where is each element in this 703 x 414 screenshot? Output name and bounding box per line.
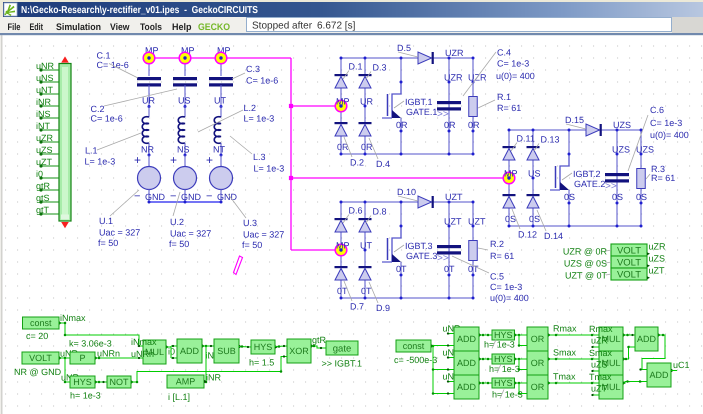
svg-text:f= 50: f= 50 [169,239,189,249]
svg-text:L= 1e-3: L= 1e-3 [254,164,285,174]
svg-text:u(0)= 400: u(0)= 400 [650,130,689,140]
svg-text:D.5: D.5 [397,43,411,53]
svg-text:R= 61: R= 61 [651,173,675,183]
svg-text:OR: OR [531,382,545,392]
svg-text:GATE.1: GATE.1 [406,107,437,117]
svg-text:uNT: uNT [36,85,54,95]
svg-text:XOR: XOR [289,346,309,356]
svg-text:h= 1e-3: h= 1e-3 [70,391,101,401]
svg-text:D.13: D.13 [541,135,560,145]
svg-text:L= 1e-3: L= 1e-3 [85,157,116,167]
svg-text:IGBT.2: IGBT.2 [573,169,601,179]
svg-text:>>: >> [437,253,449,264]
svg-text:const: const [30,318,52,328]
svg-text:NR: NR [141,145,154,155]
svg-text:const: const [403,341,425,351]
svg-text:gate: gate [333,343,352,354]
svg-text:U.3: U.3 [243,218,257,228]
svg-text:SUB: SUB [217,346,236,356]
svg-text:R= 61: R= 61 [497,103,521,113]
svg-text:gtT: gtT [36,205,50,215]
svg-text:U.2: U.2 [170,217,184,227]
svg-text:UZS: UZS [636,145,654,155]
svg-text:L= 1e-3: L= 1e-3 [244,114,275,124]
svg-text:D.7: D.7 [350,302,364,312]
svg-text:UR: UR [360,97,373,107]
svg-text:UT: UT [360,241,372,251]
svg-text:IGBT.3: IGBT.3 [405,241,433,251]
svg-text:NOT: NOT [110,377,130,387]
svg-text:C= 1e-3: C= 1e-3 [497,59,529,69]
svg-text:ADD: ADD [457,358,477,368]
svg-text:iNR: iNR [36,97,51,107]
svg-text:GECKO: GECKO [198,22,230,33]
svg-text:C.4: C.4 [497,48,511,58]
svg-text:HYS: HYS [73,377,92,387]
svg-text:0R: 0R [337,142,349,152]
svg-text:HYS: HYS [494,378,513,388]
svg-text:h= 1e-3: h= 1e-3 [492,390,523,400]
svg-text:L.1: L.1 [85,146,98,156]
svg-text:L.2: L.2 [244,103,257,113]
svg-text:AMP: AMP [176,377,196,387]
svg-text:+: + [134,153,141,167]
svg-text:0S: 0S [529,214,540,224]
svg-text:C= 1e-6: C= 1e-6 [91,114,123,124]
svg-text:iNR: iNR [206,373,221,383]
svg-text:D.15: D.15 [565,115,584,125]
svg-text:Rmax: Rmax [553,324,577,334]
svg-text:uZT: uZT [36,157,53,167]
svg-text:gtR: gtR [36,181,51,191]
svg-text:D.12: D.12 [518,230,537,240]
svg-text:D.6: D.6 [349,206,363,216]
svg-text:C.1: C.1 [97,51,111,61]
svg-text:+: + [170,153,177,167]
svg-text:C.2: C.2 [91,104,105,114]
svg-text:uNRn: uNRn [131,349,154,359]
svg-text:US: US [528,169,541,179]
svg-text:uNR: uNR [36,61,55,71]
svg-text:Uac = 327: Uac = 327 [99,228,140,238]
svg-text:R.2: R.2 [490,239,504,249]
svg-text:iNT: iNT [36,121,50,131]
svg-text:k= 3.06e-3: k= 3.06e-3 [69,339,112,349]
svg-text:u(0)= 400: u(0)= 400 [490,293,529,303]
svg-text:D.14: D.14 [544,231,563,241]
svg-text:C= 1e-3: C= 1e-3 [490,282,522,292]
svg-text:uZT: uZT [649,266,666,276]
svg-text:−: − [134,191,140,203]
svg-text:>>: >> [605,181,617,192]
svg-text:P: P [79,353,85,363]
svg-text:VOLT: VOLT [29,353,52,363]
svg-text:u(0)= 400: u(0)= 400 [496,71,535,81]
svg-text:OR: OR [531,334,545,344]
svg-text:+: + [206,153,213,167]
svg-text:Rmax: Rmax [589,324,613,334]
svg-text:C.3: C.3 [246,64,260,74]
svg-text:D.1: D.1 [349,62,363,72]
svg-text:Uac = 327: Uac = 327 [243,230,284,240]
svg-text:L.3: L.3 [253,152,266,162]
svg-text:i0: i0 [168,347,175,357]
svg-text:Simulation: Simulation [56,22,101,33]
svg-text:0S: 0S [612,192,623,202]
svg-text:U.1: U.1 [99,216,113,226]
svg-text:C.5: C.5 [490,272,504,282]
svg-text:uZR: uZR [36,133,54,143]
svg-text:D.11: D.11 [517,134,535,144]
svg-text:0T: 0T [444,264,455,274]
svg-text:iNS: iNS [36,109,51,119]
svg-text:OR: OR [531,358,545,368]
svg-text:UZT: UZT [468,217,486,227]
svg-text:C.6: C.6 [650,105,664,115]
svg-text:iNmax: iNmax [60,313,86,323]
svg-text:0T: 0T [396,264,407,274]
svg-text:gtS: gtS [36,193,50,203]
svg-text:uNRn: uNRn [97,349,120,359]
svg-text:c= -500e-3: c= -500e-3 [394,355,437,365]
svg-text:uZS: uZS [591,360,608,370]
svg-text:f= 50: f= 50 [98,238,118,248]
svg-text:uZT: uZT [591,384,608,394]
svg-text:UZT: UZT [444,217,462,227]
svg-text:uZS: uZS [36,145,53,155]
svg-text:R= 61: R= 61 [490,251,514,261]
svg-text:−: − [206,191,212,203]
svg-text:UZS: UZS [613,120,631,130]
svg-text:MP: MP [336,241,350,251]
svg-text:C= 1e-6: C= 1e-6 [246,76,278,86]
svg-text:D.2: D.2 [350,158,364,168]
svg-text:uC1: uC1 [673,360,690,370]
svg-text:f= 50: f= 50 [242,240,262,250]
svg-text:D.3: D.3 [373,63,387,73]
svg-text:HYS: HYS [494,354,513,364]
svg-text:0S: 0S [636,192,647,202]
svg-text:−: − [170,191,176,203]
svg-text:ADD: ADD [180,346,200,356]
svg-text:NS: NS [177,145,190,155]
svg-text:GATE.2: GATE.2 [574,179,605,189]
svg-text:D.8: D.8 [373,207,387,217]
svg-text:c= 20: c= 20 [26,331,48,341]
svg-text:Stopped after: Stopped after [252,21,313,32]
svg-text:Help: Help [172,22,192,33]
svg-text:Smax: Smax [553,348,577,358]
svg-text:NR @ GND: NR @ GND [14,367,62,377]
svg-text:UT: UT [214,96,226,106]
svg-text:D.10: D.10 [397,187,416,197]
svg-text:Uac = 327: Uac = 327 [170,229,211,239]
svg-text:D.9: D.9 [376,303,390,313]
svg-text:R.1: R.1 [497,92,511,102]
svg-text:uZR: uZR [649,242,667,252]
svg-text:ADD: ADD [457,382,477,392]
svg-text:IGBT.1: IGBT.1 [405,97,433,107]
svg-text:HYS: HYS [254,342,273,352]
svg-text:uZR: uZR [591,336,609,346]
svg-text:US: US [178,96,191,106]
svg-text:6.672 [s]: 6.672 [s] [317,21,356,32]
svg-text:MP: MP [336,97,350,107]
svg-text:File: File [8,22,21,33]
svg-text:GND: GND [145,192,166,202]
svg-text:0T: 0T [361,286,372,296]
svg-text:MP: MP [504,169,518,179]
svg-text:0R: 0R [396,120,408,130]
svg-text:i [L.1]: i [L.1] [168,392,190,402]
svg-text:UZT @ 0T: UZT @ 0T [565,271,607,281]
svg-text:VOLT: VOLT [617,270,641,281]
svg-text:UZS: UZS [612,145,630,155]
svg-text:Edit: Edit [30,22,44,33]
svg-text:ADD: ADD [637,334,657,344]
svg-text:GND: GND [217,192,238,202]
svg-text:Smax: Smax [589,348,613,358]
svg-text:UZT: UZT [445,192,463,202]
svg-text:C= 1e-3: C= 1e-3 [650,118,682,128]
svg-text:i0: i0 [36,169,43,179]
svg-text:Tmax: Tmax [553,372,576,382]
svg-text:NT: NT [213,145,225,155]
svg-text:uZS: uZS [649,254,666,264]
svg-text:Tools: Tools [140,22,162,33]
svg-text:0R: 0R [444,120,456,130]
svg-text:h= 1.5: h= 1.5 [249,358,274,368]
svg-text:UZS @ 0S: UZS @ 0S [564,259,607,269]
svg-text:0R: 0R [468,120,480,130]
svg-text:GATE.3: GATE.3 [406,251,437,261]
svg-text:uNS: uNS [36,73,54,83]
svg-text:UZR @ 0R: UZR @ 0R [563,247,608,257]
svg-text:N:\Gecko-Research\y-rectifier_: N:\Gecko-Research\y-rectifier_v01.ipes -… [21,5,258,16]
svg-text:h= 1e-3: h= 1e-3 [489,364,520,374]
svg-text:GND: GND [181,192,202,202]
svg-text:VOLT: VOLT [617,258,641,269]
svg-text:h= 1e-3: h= 1e-3 [484,340,515,350]
svg-text:>> IGBT.1: >> IGBT.1 [322,359,363,369]
svg-text:ADD: ADD [649,370,669,380]
svg-text:iNmax: iNmax [131,337,157,347]
svg-text:Tmax: Tmax [589,372,612,382]
svg-text:UZR: UZR [444,73,463,83]
svg-text:UZR: UZR [445,48,464,58]
svg-text:0S: 0S [564,192,575,202]
svg-text:ADD: ADD [457,334,477,344]
svg-text:D.4: D.4 [376,159,390,169]
svg-text:gtR: gtR [312,335,327,345]
svg-text:VOLT: VOLT [617,246,641,257]
svg-text:>>: >> [437,109,449,120]
svg-text:UZR: UZR [468,73,487,83]
svg-text:View: View [110,22,130,33]
